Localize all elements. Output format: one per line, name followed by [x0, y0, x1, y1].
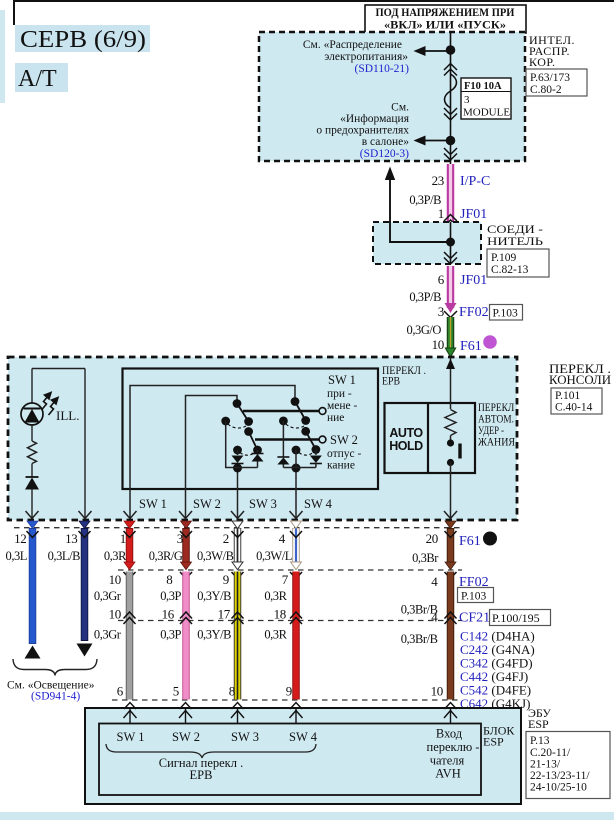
svg-text:при -: при -	[327, 388, 352, 400]
text: См. «Распределение электропитания» (SD110-21)	[303, 39, 409, 75]
svg-text:6: 6	[438, 272, 445, 287]
svg-text:0,3G/O: 0,3G/O	[407, 323, 442, 337]
svg-text:18: 18	[274, 607, 286, 622]
svg-text:УДЕР -: УДЕР -	[478, 425, 504, 437]
wire 0,3P/B magenta: I/P-C to JF01	[450, 161, 452, 221]
svg-text:20: 20	[426, 531, 438, 546]
exit arrow pin13	[79, 511, 92, 519]
svg-text:I/P-C: I/P-C	[460, 174, 490, 189]
svg-text:C.80-2: C.80-2	[530, 84, 562, 96]
bottom blue bar	[0, 812, 614, 820]
terminal SW2	[319, 436, 326, 443]
connector row 4 dashed line (ESP)	[112, 699, 458, 701]
svg-text:HOLD: HOLD	[389, 439, 423, 453]
svg-text:AVH: AVH	[435, 767, 460, 781]
node dot in connector	[446, 238, 455, 247]
svg-text:24-10/25-10: 24-10/25-10	[530, 782, 587, 794]
fuse F10 connector chevrons up	[444, 64, 457, 76]
svg-text:4: 4	[279, 531, 286, 546]
wire branch with up arrow	[385, 167, 451, 243]
svg-text:4: 4	[431, 610, 438, 625]
brace to lighting note	[13, 659, 97, 676]
console switch dashed box	[8, 357, 517, 520]
svg-text:SW 2: SW 2	[193, 497, 221, 511]
svg-text:0,3L: 0,3L	[6, 549, 27, 563]
wire ILL lamp column	[31, 369, 33, 404]
svg-text:16: 16	[162, 607, 175, 622]
svg-text:SW 1: SW 1	[117, 730, 145, 744]
svg-text:0,3P: 0,3P	[160, 628, 181, 642]
svg-text:22-13/23-11/: 22-13/23-11/	[530, 770, 590, 782]
svg-text:0,3R: 0,3R	[264, 628, 287, 642]
svg-text:0,3R: 0,3R	[264, 589, 287, 603]
svg-text:0,3R/G: 0,3R/G	[149, 549, 183, 563]
svg-text:SW 4: SW 4	[289, 730, 318, 744]
svg-text:3: 3	[438, 304, 444, 319]
violet dot	[483, 335, 497, 349]
svg-text:ЕРВ: ЕРВ	[190, 768, 213, 782]
svg-text:КОНСОЛИ: КОНСОЛИ	[549, 373, 611, 387]
svg-text:SW 3: SW 3	[231, 730, 259, 744]
svg-text:«Информация: «Информация	[340, 113, 410, 125]
lever bar	[458, 444, 461, 459]
svg-text:5: 5	[173, 684, 179, 699]
wire to exit	[450, 463, 452, 520]
console labels	[139, 362, 611, 511]
svg-text:Вход: Вход	[436, 727, 463, 741]
outer box БЛОК ESP	[85, 708, 521, 804]
exit arrow pin12	[26, 511, 39, 519]
svg-text:JF01: JF01	[460, 207, 487, 222]
svg-text:кание: кание	[327, 460, 355, 472]
svg-text:о предохранителях: о предохранителях	[316, 125, 409, 137]
wire arrow to SD120-3	[414, 136, 451, 146]
bottom wiring	[6, 521, 551, 711]
lever 1	[295, 402, 306, 421]
svg-text:F10 10A: F10 10A	[464, 81, 502, 92]
inner box	[99, 724, 481, 796]
svg-text:SW 2: SW 2	[172, 730, 200, 744]
svg-text:0,3Gr: 0,3Gr	[94, 589, 122, 603]
wire 0,3P/B magenta lower	[445, 266, 457, 313]
svg-text:12: 12	[14, 531, 26, 546]
svg-text:10: 10	[109, 607, 121, 622]
bottom rail	[283, 467, 316, 469]
svg-text:А/Т: А/Т	[18, 66, 57, 92]
lever 2	[249, 432, 258, 451]
svg-text:(SD941-4): (SD941-4)	[31, 691, 80, 703]
box P.63/173 C.80-2	[526, 69, 587, 96]
svg-text:0,3R: 0,3R	[104, 549, 127, 563]
svg-text:10: 10	[109, 572, 121, 587]
mech link dashes	[228, 424, 246, 428]
center contact drop	[295, 450, 297, 468]
wire SW1 riser	[130, 386, 295, 520]
connector row 3 dashed line (CF21)	[118, 620, 462, 622]
svg-text:SW 3: SW 3	[249, 497, 277, 511]
svg-text:ПОД НАПРЯЖЕНИЕМ ПРИ: ПОД НАПРЯЖЕНИЕМ ПРИ	[376, 6, 515, 19]
svg-text:C.40-14: C.40-14	[555, 402, 593, 414]
svg-text:P.109: P.109	[491, 252, 516, 264]
svg-text:0,3Br/B: 0,3Br/B	[401, 632, 438, 646]
wire top link	[32, 368, 85, 370]
svg-text:F61: F61	[460, 339, 482, 354]
wire col5: 0,3W/B then 0,3Y/B	[232, 521, 244, 700]
exit chevron from fuse box	[444, 148, 457, 160]
wire in right cell	[450, 403, 452, 409]
svg-text:АВТОМ.: АВТОМ.	[478, 414, 514, 426]
contact wire left drop with diode	[282, 421, 284, 457]
fuse label box F10 10A / 3 MODULE	[461, 78, 511, 119]
svg-text:в салоне»: в салоне»	[362, 136, 410, 148]
contact dots	[291, 397, 300, 406]
svg-text:ние: ние	[327, 412, 344, 424]
contact wire left drop	[226, 421, 238, 468]
entry arrows SW1..SW4, AVH	[124, 703, 458, 724]
svg-text:0,3W/B: 0,3W/B	[197, 549, 234, 563]
ILL branch	[21, 369, 92, 520]
svg-text:17: 17	[218, 607, 231, 622]
wire entry from F61	[450, 357, 452, 403]
diode under lever2 tip	[315, 450, 317, 456]
box P.109 C.82-13	[487, 249, 549, 277]
svg-text:4: 4	[431, 574, 438, 589]
svg-text:3: 3	[464, 94, 470, 106]
console exit arrows SW1-SW4	[124, 511, 137, 519]
svg-text:«ВКЛ» ИЛИ «ПУСК»: «ВКЛ» ИЛИ «ПУСК»	[384, 19, 506, 32]
mech link dashes	[286, 424, 304, 428]
wire arrow to SD110-21	[414, 46, 451, 56]
svg-text:0,3L/B: 0,3L/B	[48, 549, 80, 563]
svg-text:JF01: JF01	[460, 273, 487, 288]
svg-text:0,3P/B: 0,3P/B	[409, 193, 441, 207]
svg-text:P.103: P.103	[493, 308, 518, 320]
svg-text:6: 6	[117, 684, 124, 699]
fuse connector chevrons down	[444, 108, 457, 120]
ESP control unit box	[85, 703, 610, 805]
svg-text:MODULE: MODULE	[463, 107, 510, 119]
svg-text:0,3Y/B: 0,3Y/B	[197, 589, 231, 603]
svg-text:2: 2	[223, 531, 229, 546]
svg-text:P.100/195: P.100/195	[492, 611, 540, 625]
lever 1	[237, 404, 249, 422]
svg-text:0,3Y/B: 0,3Y/B	[197, 628, 231, 642]
svg-text:3: 3	[177, 531, 183, 546]
svg-text:23: 23	[432, 173, 444, 188]
svg-text:См. «Распределение: См. «Распределение	[303, 39, 402, 51]
svg-text:13: 13	[65, 531, 77, 546]
svg-text:P.63/173: P.63/173	[530, 72, 570, 84]
svg-text:8: 8	[229, 684, 235, 699]
svg-text:ЖАНИЯ: ЖАНИЯ	[478, 437, 515, 449]
fuse F10 squiggle	[445, 74, 457, 108]
diode	[26, 476, 39, 478]
left corner tick	[13, 0, 15, 25]
auto hold switch	[385, 357, 476, 519]
svg-text:1: 1	[120, 531, 126, 546]
node junction dot top	[446, 45, 456, 55]
chevron into connector	[444, 215, 457, 227]
diode on SW3 node	[237, 450, 239, 455]
svg-text:7: 7	[282, 572, 289, 587]
svg-text:C.82-13: C.82-13	[491, 264, 529, 276]
svg-text:P.101: P.101	[555, 390, 580, 402]
wire col4: 0,3R/G then 0,3P	[180, 521, 192, 700]
svg-text:0,3Br: 0,3Br	[412, 551, 439, 565]
wire col3: 0,3R then 0,3Gr	[124, 521, 136, 700]
svg-text:SW 4: SW 4	[304, 497, 333, 511]
svg-text:0,3W/L: 0,3W/L	[256, 549, 292, 563]
contact dots	[233, 399, 242, 408]
wire through connector	[450, 222, 452, 264]
wire col6: 0,3W/L then 0,3R	[290, 521, 302, 700]
svg-text:ЕРВ: ЕРВ	[382, 376, 400, 388]
wire SW4 drop	[295, 468, 297, 519]
node junction dot bottom	[446, 136, 456, 146]
wire col7: 0,3Br then 0,3Br/B	[445, 521, 457, 700]
switch contacts	[447, 439, 454, 446]
svg-text:C.20-11/: C.20-11/	[530, 747, 571, 759]
wire 0,3L/B col2	[77, 521, 93, 657]
EPB switch box	[123, 369, 379, 520]
svg-text:мене -: мене -	[327, 400, 358, 412]
svg-text:SW 1: SW 1	[139, 497, 167, 511]
svg-text:SW 2: SW 2	[330, 433, 358, 447]
lever 2	[306, 431, 316, 449]
svg-text:переклю -: переклю -	[427, 740, 480, 754]
exit chevron from connector	[444, 252, 457, 264]
svg-text:См.: См.	[391, 102, 409, 114]
svg-text:21-13/: 21-13/	[530, 759, 561, 771]
svg-text:(SD120-3): (SD120-3)	[360, 148, 409, 160]
SW2 bus to terminal	[255, 438, 319, 440]
header box: ПОД НАПРЯЖЕНИЕМ ПРИ «ВКЛ» ИЛИ «ПУСК»	[365, 5, 526, 33]
svg-text:0,3P/B: 0,3P/B	[409, 290, 441, 304]
illumination arrows	[42, 393, 59, 416]
label ИНТЕЛ. РАСПР. КОР.	[529, 33, 575, 69]
svg-text:(SD110-21): (SD110-21)	[354, 63, 409, 75]
svg-text:F61: F61	[459, 534, 481, 549]
AUTO HOLD box	[385, 403, 476, 473]
wire SW2 riser	[186, 396, 238, 520]
svg-text:электропитания»: электропитания»	[324, 51, 408, 63]
svg-text:1: 1	[438, 206, 444, 221]
arrow to lighting	[25, 646, 41, 659]
box P.13 pages	[526, 732, 610, 799]
resistor	[28, 441, 37, 464]
bottom rail	[238, 467, 258, 469]
svg-text:8: 8	[166, 572, 172, 587]
brace under SW labels	[106, 744, 316, 758]
LED lamp ILL	[21, 403, 43, 425]
svg-text:CF21: CF21	[459, 611, 490, 626]
connector row 2 dashed line (FF02)	[118, 569, 462, 571]
diode under lever2 tip	[257, 450, 259, 453]
SW1 bus to terminal	[243, 410, 319, 412]
svg-text:P.103: P.103	[461, 591, 486, 603]
terminal SW1	[319, 408, 326, 415]
wire ILL return column	[84, 369, 86, 520]
wire 0,3G/O green	[445, 317, 455, 357]
top black line	[15, 0, 614, 2]
top fuse dashed box	[259, 32, 525, 161]
svg-text:ESP: ESP	[528, 717, 549, 731]
connector row 1 dashed line (F61)	[14, 527, 462, 529]
title СЕРВ (6/9)	[15, 25, 150, 53]
title A/T	[15, 63, 68, 92]
chevron FF02	[444, 311, 457, 318]
svg-text:AUTO: AUTO	[389, 426, 423, 440]
svg-text:ПЕРЕКЛ .: ПЕРЕКЛ .	[478, 402, 519, 414]
left blue strip	[0, 10, 5, 103]
svg-text:СЕРВ (6/9): СЕРВ (6/9)	[20, 27, 146, 53]
resistor	[445, 410, 456, 436]
svg-text:0,3Gr: 0,3Gr	[94, 628, 122, 642]
wire SW3 drop	[237, 468, 239, 519]
svg-text:FF02: FF02	[459, 305, 489, 320]
svg-text:КОР.: КОР.	[529, 55, 556, 69]
box P.101 C.40-14	[551, 388, 602, 414]
svg-text:P.13: P.13	[530, 735, 550, 747]
right switch group	[277, 397, 322, 472]
text: См. «Информация о предохранителях в салоне» (SD120-3)	[316, 102, 409, 161]
svg-text:0,3P: 0,3P	[160, 589, 181, 603]
svg-text:9: 9	[223, 572, 229, 587]
svg-text:НИТЕЛЬ: НИТЕЛЬ	[487, 234, 543, 248]
svg-text:отпус -: отпус -	[327, 448, 362, 460]
svg-text:чателя: чателя	[430, 754, 465, 768]
wire: main vertical in fuse box	[450, 33, 452, 161]
svg-text:ESP: ESP	[483, 735, 504, 749]
svg-text:10: 10	[432, 337, 444, 352]
wire 0,3L col1	[25, 521, 41, 659]
svg-text:9: 9	[286, 684, 292, 699]
svg-text:SW 1: SW 1	[328, 373, 356, 387]
arrow from lighting	[77, 644, 93, 657]
svg-text:10: 10	[431, 684, 443, 699]
svg-text:ILL.: ILL.	[56, 408, 79, 423]
connector box СОЕДИНИТЕЛЬ	[373, 222, 481, 264]
left switch group	[221, 399, 263, 472]
